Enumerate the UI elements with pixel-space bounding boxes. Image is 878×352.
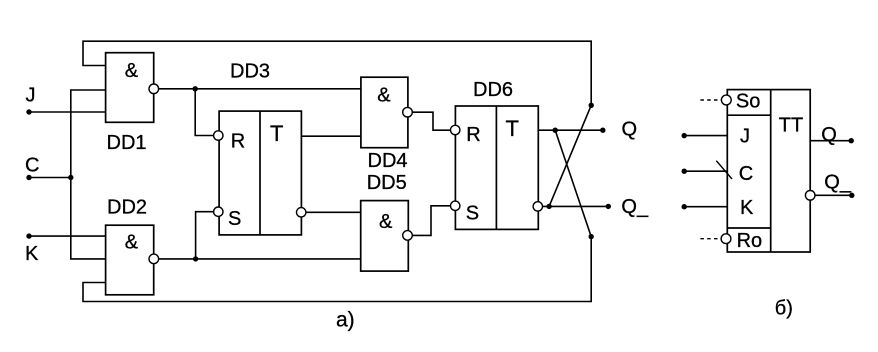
svg-text:S: S [466, 203, 479, 225]
svg-text:TT: TT [779, 114, 803, 136]
svg-text:DD6: DD6 [473, 79, 513, 101]
svg-text:R: R [466, 124, 480, 146]
svg-text:&: & [125, 232, 139, 254]
svg-text:а): а) [336, 309, 355, 332]
svg-text:C: C [25, 154, 39, 176]
svg-text:Ro: Ro [737, 230, 763, 252]
svg-text:K: K [740, 197, 754, 219]
svg-text:DD3: DD3 [230, 61, 270, 83]
svg-text:J: J [740, 126, 750, 148]
svg-text:Q_: Q_ [824, 172, 852, 194]
svg-text:&: & [125, 60, 139, 82]
svg-text:Q_: Q_ [621, 196, 649, 218]
svg-text:DD5: DD5 [367, 172, 407, 194]
svg-text:J: J [26, 84, 36, 106]
svg-text:S: S [228, 208, 241, 230]
svg-text:C: C [739, 163, 753, 185]
svg-text:DD4: DD4 [368, 150, 408, 172]
svg-text:Q: Q [821, 124, 837, 146]
svg-text:K: K [25, 243, 39, 265]
svg-text:So: So [736, 90, 760, 112]
svg-text:T: T [270, 121, 283, 146]
svg-text:DD2: DD2 [107, 197, 147, 219]
svg-text:DD1: DD1 [107, 132, 147, 154]
svg-text:&: & [377, 84, 391, 106]
svg-text:&: & [379, 211, 393, 233]
svg-text:R: R [231, 131, 245, 153]
svg-text:Q: Q [622, 119, 638, 141]
svg-text:T: T [506, 116, 519, 141]
svg-text:б): б) [775, 297, 793, 319]
